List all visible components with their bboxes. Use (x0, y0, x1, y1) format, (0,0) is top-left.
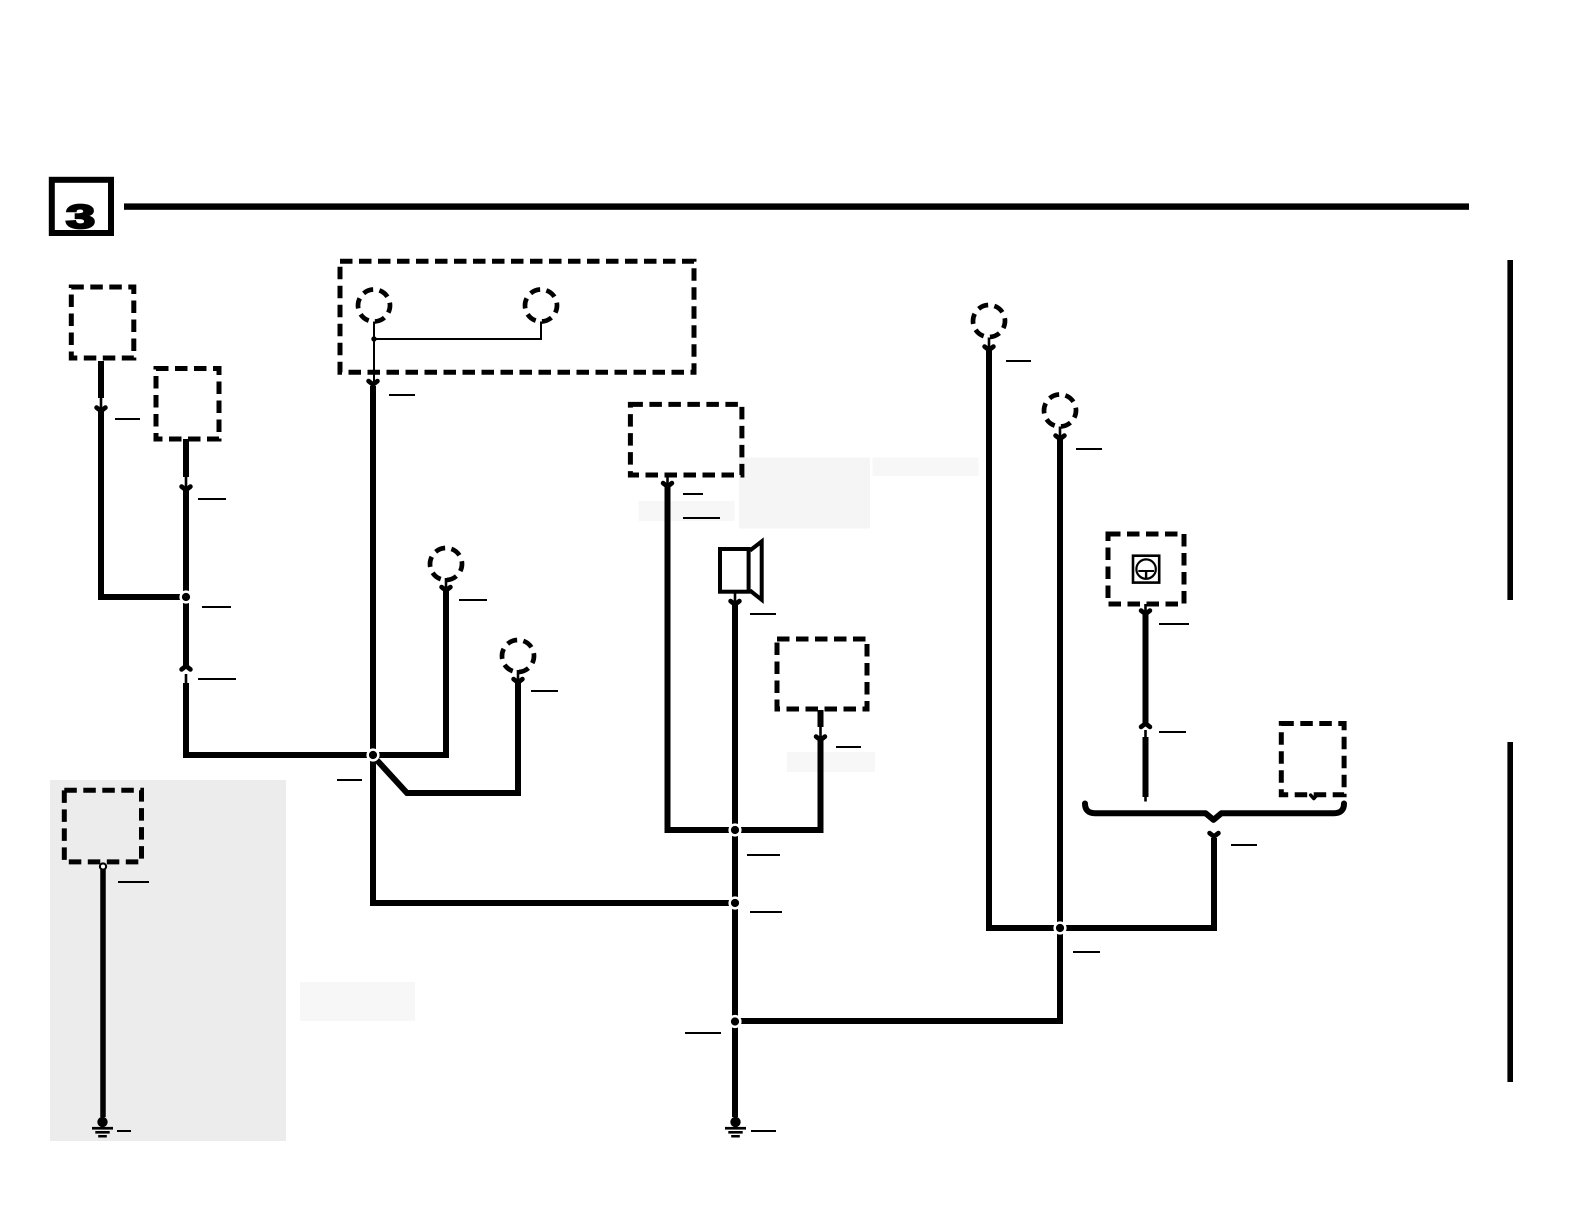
arrow: below connector C (663, 473, 672, 487)
wire: horn box down to up-arrow (1143, 613, 1149, 724)
wire: node to lamp C2 (thin) (374, 322, 541, 340)
arrow: below connector A (97, 397, 106, 411)
lamp C2 (dashed circle in radio box) (525, 290, 557, 322)
shaded region (below right connector box) (787, 752, 875, 772)
label: brace wire (1231, 844, 1257, 846)
COMPONENTS (dashed outlines) (64, 261, 1344, 862)
label: connector C wire (1) (683, 493, 703, 495)
wire: connector C down, right along bus to connector D branch (668, 476, 821, 830)
lamp C3 (dashed circle) (430, 548, 462, 580)
label: wire B (198, 498, 226, 500)
label: connector F wire (118, 881, 149, 883)
ground (lower-left) (92, 1117, 113, 1138)
shaded region (large, lower-left) (50, 780, 286, 1141)
node J4 (728, 896, 741, 909)
wire: connector B down through J1 to corner, right to node J2 (186, 439, 373, 755)
arrow: below lamp C6 (1056, 427, 1065, 440)
node J6 (1053, 921, 1066, 934)
wire: node J2 down then right to node J4 (373, 755, 735, 903)
brace: wire bundle collector (1085, 804, 1344, 820)
arrow: below lamp C4 (514, 670, 523, 683)
small chevron below connector E (1311, 795, 1317, 799)
label: node J5 (685, 1032, 721, 1034)
wire: lamp C5 down, right, up to brace arrow (989, 349, 1214, 929)
node: thin wire junction in radio box (371, 336, 376, 341)
wire: connector A down then right to node J1 (101, 361, 186, 597)
wire: up-arrow down to brace (1143, 737, 1149, 797)
node J1 (179, 590, 192, 603)
shaded region (thin strip right of center) (873, 458, 979, 477)
speaker symbol (720, 541, 762, 599)
arrow: up-arrow on left branch (182, 666, 191, 684)
lamp C4 (dashed circle) (502, 640, 534, 672)
horn symbol (square + circle + T) (1133, 556, 1159, 583)
wire: left connector down to ground (lower-left) (100, 870, 106, 1118)
label: lamp C4 wire (531, 690, 558, 692)
label: segment J3-J4 (747, 854, 780, 856)
label: horn up-arrow (1159, 731, 1186, 733)
arrow: below lamp C3 (442, 578, 451, 591)
arrow: below horn box (1141, 604, 1150, 614)
label: up-arrow left (198, 678, 236, 680)
connector B (dashed box) (156, 369, 219, 440)
ground (center-bottom) (725, 1117, 746, 1138)
wire: lamp C1 down (thin) (373, 322, 375, 383)
horn unit (dashed box, right) (1108, 534, 1184, 604)
label: ground center (751, 1130, 776, 1132)
connector F (dashed box, lower-left) (64, 790, 141, 862)
wire: speaker down to ground (732, 603, 738, 1117)
label: node J1 (202, 606, 231, 608)
shaded region (small, lower-left of center) (300, 982, 415, 1021)
label: ground left (117, 1130, 131, 1132)
arrow: below connector B (182, 476, 191, 490)
label: node J6 (1073, 951, 1100, 953)
label: lamp C3 wire (459, 599, 487, 601)
arrow: below speaker (731, 593, 740, 605)
arrow: below brace (1210, 824, 1219, 837)
right margin bar (upper) (1507, 260, 1513, 600)
arrow: below connector D (816, 726, 825, 740)
label: lamp C6 wire (1076, 448, 1102, 450)
node J5 (728, 1015, 741, 1028)
label: node J4 (750, 911, 782, 913)
label: connector D wire (836, 746, 861, 748)
label: wire A (115, 418, 140, 420)
arrow: up-arrow on horn branch (1141, 724, 1150, 741)
top rule (124, 203, 1469, 209)
lamp C1 (dashed circle in radio box) (358, 290, 390, 322)
connector D (dashed box) (777, 639, 867, 709)
right margin bar (lower) (1507, 742, 1513, 1082)
terminal ring (below connector F) (100, 863, 106, 869)
label: horn wire (1159, 623, 1189, 625)
thin wires inside radio box (374, 322, 541, 383)
section number box "3" (52, 180, 111, 236)
wire tip: horn wire end above brace (1144, 795, 1147, 802)
label: lamp C5 wire (1006, 360, 1031, 362)
wire labels (redacted dashes) (115, 361, 1257, 1131)
shaded region (small strip left of center wire) (639, 501, 735, 521)
wire: node J2 diagonal, right and up to lamp C4 (374, 681, 518, 793)
wire: radio box down to node J2 (370, 386, 376, 755)
arrow: below lamp C5 (985, 338, 994, 351)
arrow: below radio box (369, 381, 378, 384)
svg-text:3: 3 (66, 199, 95, 235)
lamp C5 (dashed circle, right) (973, 305, 1005, 337)
label: node J2 (337, 779, 362, 781)
lamp C6 (dashed circle, right) (1044, 395, 1076, 427)
radio unit (large dashed box, top-center) (340, 261, 694, 372)
node J2 (366, 748, 379, 761)
node J3 (728, 823, 741, 836)
label: connector C wire (2) (683, 517, 720, 519)
wire: lamp C6 down, left to node J5 (735, 438, 1060, 1022)
label: radio wire (389, 394, 415, 396)
wire: node J2 right and up to lamp C3 (373, 589, 446, 755)
label: speaker wire (750, 613, 776, 615)
connector A (dashed box, top-left) (71, 287, 134, 358)
shaded region (center, right of radio wire) (739, 458, 870, 529)
connector E (dashed box, right) (1281, 724, 1344, 795)
connector C (dashed box, center) (630, 404, 742, 475)
